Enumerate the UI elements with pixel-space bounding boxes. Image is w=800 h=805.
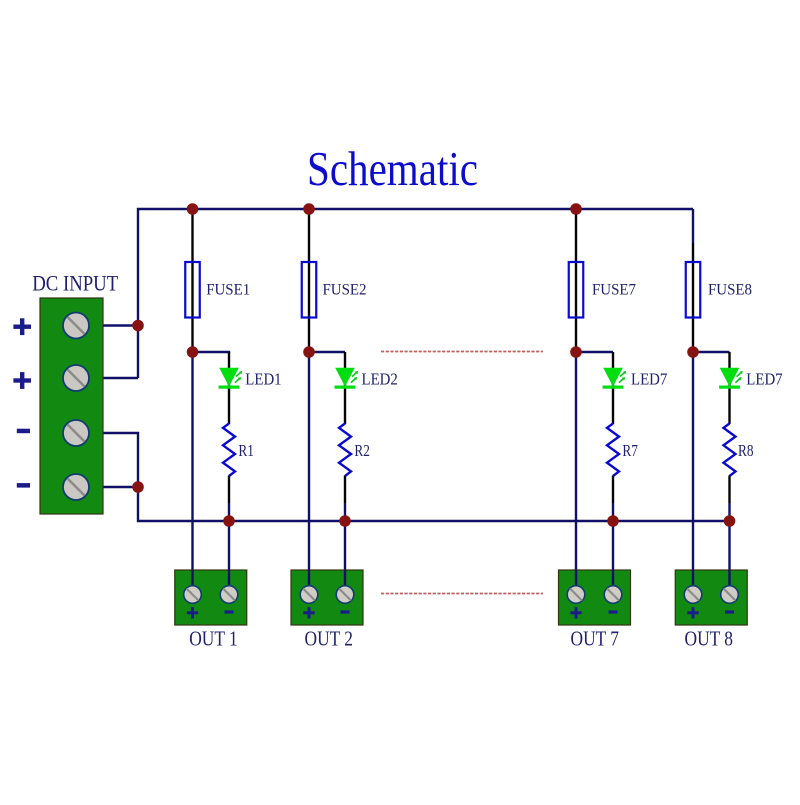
wire R2 to OUT2 -	[344, 503, 346, 595]
OUT8 plus mark	[687, 607, 698, 618]
junction bus R7	[607, 515, 619, 527]
wire DC - terminal 4	[88, 486, 138, 488]
OUT7 screw +	[567, 586, 585, 604]
junction fuse2 LED2	[303, 346, 315, 358]
DC screw terminal 1	[63, 313, 89, 339]
wire fuse8 to OUT8 +	[692, 352, 694, 595]
resistor R2	[339, 424, 370, 477]
DC input plus label 1	[13, 318, 31, 335]
DC input minus label 2	[17, 483, 30, 488]
svg-text:LED1: LED1	[245, 369, 281, 388]
svg-text:OUT 2: OUT 2	[305, 629, 354, 651]
junction fuse7 LED7	[570, 346, 582, 358]
wire DC + terminal 1	[88, 324, 138, 326]
junction bus R8	[724, 515, 736, 527]
OUT1 plus mark	[187, 607, 198, 618]
svg-text:FUSE2: FUSE2	[323, 282, 367, 299]
LED LED1	[219, 368, 282, 389]
continuation dashed line lower	[381, 593, 543, 595]
fuse FUSE7	[569, 262, 637, 318]
OUT8 terminal block	[675, 570, 747, 651]
svg-text:LED7: LED7	[631, 369, 667, 388]
svg-text:FUSE8: FUSE8	[708, 282, 752, 299]
svg-text:LED7: LED7	[746, 369, 782, 388]
wire DC + terminal 2	[88, 377, 138, 379]
OUT2 plus mark	[303, 607, 314, 618]
wire LED2 resistor branch black	[344, 352, 346, 424]
junction top bus fuse7	[570, 203, 582, 215]
wire LED7 branch feed	[576, 351, 613, 353]
wire LED2 branch feed	[309, 351, 345, 353]
DC screw terminal 3	[63, 420, 89, 446]
wire R1 to OUT1 -	[228, 503, 230, 595]
continuation dashed line upper	[381, 351, 543, 353]
OUT1 screw -	[220, 586, 238, 604]
wire top bus	[138, 209, 693, 378]
wire LED7 resistor branch black	[612, 352, 614, 424]
DC input minus label 1	[17, 429, 30, 434]
svg-text:OUT 8: OUT 8	[685, 629, 734, 651]
svg-text:R2: R2	[354, 441, 370, 460]
fuse FUSE8	[686, 262, 753, 318]
fuse FUSE2	[302, 262, 367, 318]
svg-text:FUSE7: FUSE7	[592, 282, 636, 299]
resistor R1	[223, 424, 254, 477]
wire fuse8 column black	[692, 243, 694, 352]
wire DC - terminal 3	[88, 433, 138, 487]
wire R8 to OUT8 -	[728, 503, 730, 595]
svg-text:LED2: LED2	[362, 369, 398, 388]
OUT8 minus mark	[725, 610, 734, 613]
svg-text:DC INPUT: DC INPUT	[32, 271, 118, 296]
wire bottom bus	[138, 487, 730, 521]
svg-text:R1: R1	[238, 441, 254, 460]
wire fuse1 to OUT1 +	[191, 352, 193, 595]
OUT2 screw +	[300, 586, 318, 604]
OUT1 minus mark	[225, 610, 234, 613]
DC screw terminal 2	[63, 365, 89, 391]
OUT8 screw -	[721, 586, 739, 604]
wire fuse8 column navy top	[692, 209, 694, 243]
junction top bus fuse2	[303, 203, 315, 215]
DC input plus label 2	[13, 372, 31, 389]
LED LED8 (labelled LED7)	[719, 368, 783, 389]
wire LED8 branch feed	[693, 351, 730, 353]
OUT7 plus mark	[570, 607, 581, 618]
wire fuse7 to OUT7 +	[575, 352, 577, 595]
junction fuse1 LED1	[187, 346, 199, 358]
wire fuse2 to OUT2 +	[308, 352, 310, 595]
svg-text:OUT 7: OUT 7	[571, 629, 620, 651]
LED LED2	[335, 368, 398, 389]
resistor R7	[607, 424, 638, 477]
svg-text:Schematic: Schematic	[307, 141, 478, 196]
OUT1 screw +	[184, 586, 202, 604]
svg-text:FUSE1: FUSE1	[206, 282, 250, 299]
wire fuse1 column black	[191, 209, 193, 352]
svg-text:R8: R8	[738, 441, 754, 460]
junction DC input minus	[132, 481, 144, 493]
DC screw terminal 4	[63, 474, 89, 500]
junction bus R2	[339, 515, 351, 527]
OUT8 screw +	[684, 586, 702, 604]
wire LED1 resistor branch black	[228, 352, 230, 424]
wire LED8 resistor branch black	[728, 352, 730, 424]
wire fuse2 column black	[308, 209, 310, 352]
OUT7 screw -	[604, 586, 622, 604]
wire LED1 branch feed	[193, 352, 230, 353]
DC INPUT terminal block	[32, 271, 118, 515]
OUT1 terminal block	[175, 570, 247, 651]
OUT2 terminal block	[291, 570, 363, 651]
OUT2 screw -	[336, 586, 354, 604]
junction fuse8 LED8	[687, 346, 699, 358]
fuse FUSE1	[185, 262, 250, 318]
OUT7 minus mark	[609, 610, 618, 613]
svg-text:OUT 1: OUT 1	[189, 629, 238, 651]
wire fuse7 column black	[575, 209, 577, 352]
svg-text:R7: R7	[622, 441, 638, 460]
OUT7 terminal block	[559, 570, 631, 651]
resistor R8	[724, 424, 754, 477]
junction DC input plus	[132, 320, 144, 332]
wire R7 to OUT7 -	[612, 503, 614, 595]
LED LED7	[603, 368, 668, 389]
junction bus R1	[223, 515, 235, 527]
junction top bus fuse1	[187, 203, 199, 215]
OUT2 minus mark	[341, 610, 350, 613]
